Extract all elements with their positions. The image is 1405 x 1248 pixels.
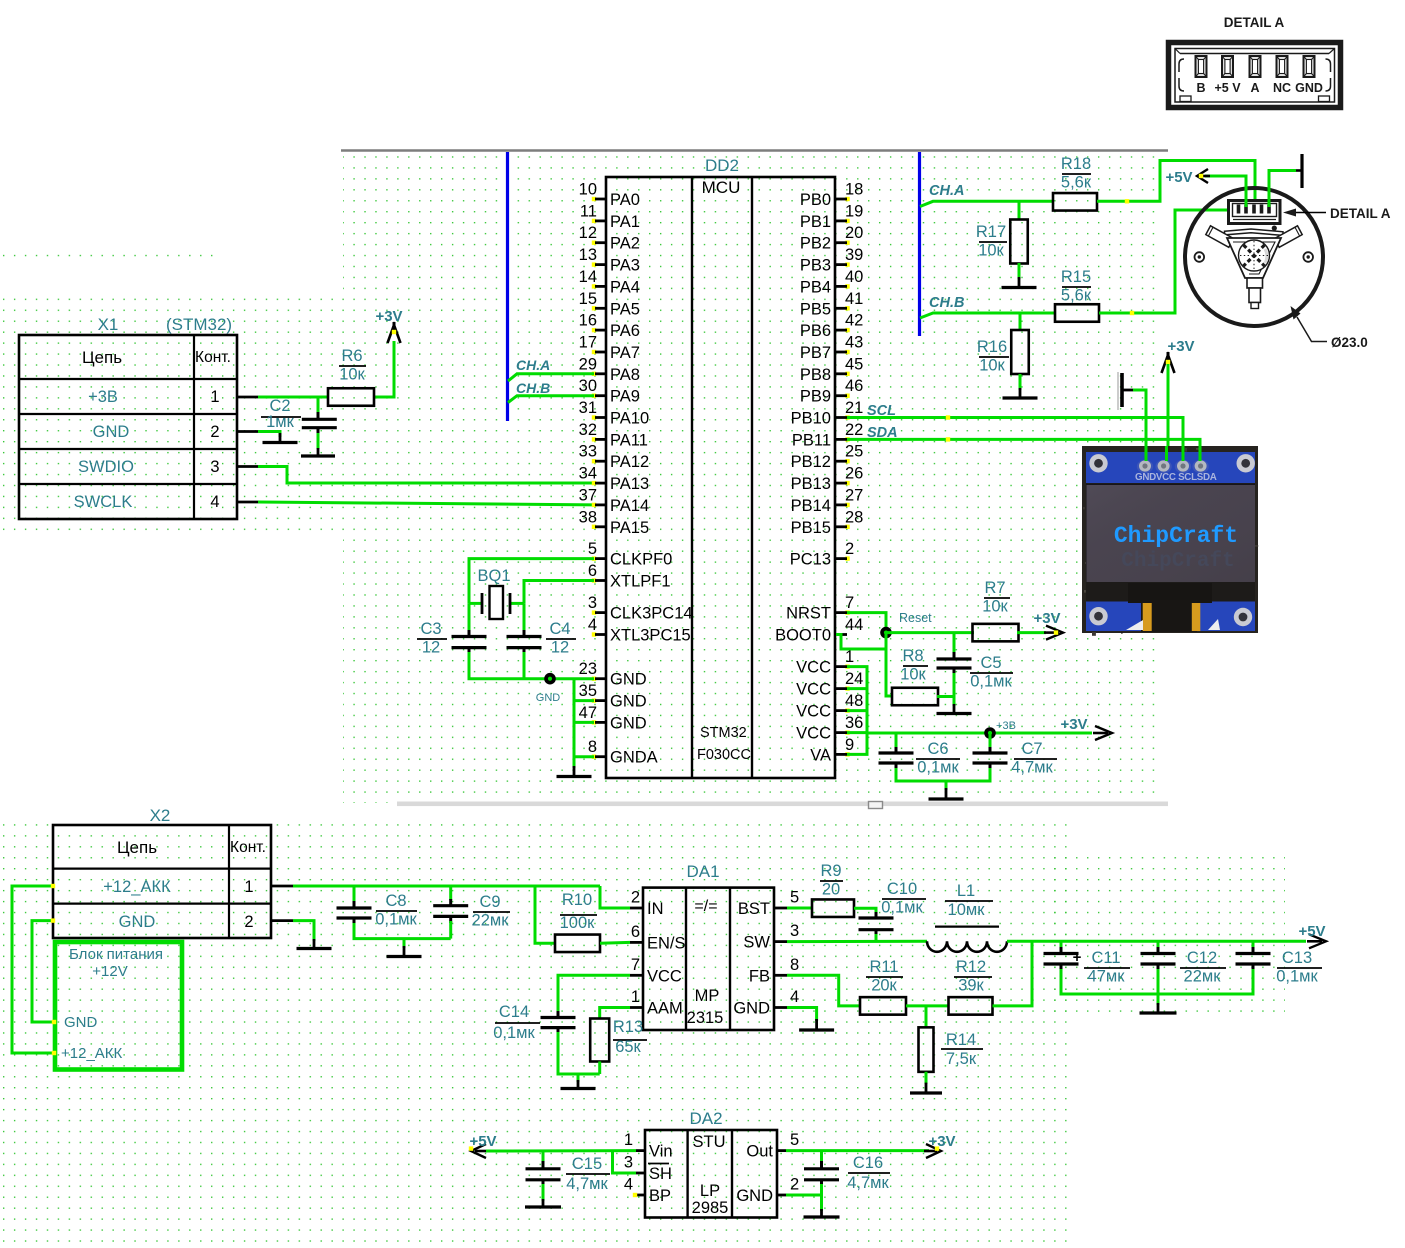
resistor R11 <box>860 997 906 1015</box>
svg-text:+5V: +5V <box>1165 169 1192 186</box>
X1 pin 3 stub <box>237 465 259 468</box>
svg-text:GNDA: GNDA <box>610 749 658 767</box>
wire SWCLK to PA14 <box>258 502 594 505</box>
label BQ1 <box>477 567 510 585</box>
svg-text:NC: NC <box>1273 81 1291 95</box>
svg-text:+3В: +3В <box>88 388 118 406</box>
svg-text:15: 15 <box>579 290 597 308</box>
svg-text:PA15: PA15 <box>610 519 649 537</box>
DD2 pin 34 PA13 <box>579 465 650 494</box>
regulator DA2 body <box>645 1130 777 1218</box>
DETAIL A connector drawing <box>1169 43 1341 108</box>
OLED display module photo <box>1082 446 1258 636</box>
wire rail to C8 <box>353 886 356 908</box>
label C4 12 <box>546 620 576 657</box>
wire R16 to ground <box>1019 374 1022 390</box>
label R15 5,6к <box>1061 268 1092 305</box>
svg-text:PA2: PA2 <box>610 235 640 253</box>
DETAIL A pin NC <box>1273 56 1291 95</box>
wire X1 pin1 to C2 <box>317 397 320 419</box>
DETAIL A pin A <box>1250 56 1261 95</box>
svg-text:12: 12 <box>551 639 569 657</box>
connector X2 table <box>53 825 271 938</box>
label C15 4,7мк <box>566 1155 610 1193</box>
wire C9 to bottom rail <box>449 916 452 938</box>
ground below C16 <box>804 1209 840 1217</box>
MCU title text <box>702 178 741 197</box>
svg-text:=/=: =/= <box>694 898 717 915</box>
svg-text:1мк: 1мк <box>266 413 295 431</box>
wire CH.A to PA8 <box>508 374 594 381</box>
DD2 pin 41 PB5 <box>800 290 864 319</box>
svg-text:PA5: PA5 <box>610 300 640 318</box>
svg-text:5: 5 <box>790 1131 799 1149</box>
DA2 pin 5 Out <box>746 1131 799 1161</box>
svg-text:37: 37 <box>579 486 597 504</box>
wire AAM to R13 <box>600 1008 630 1019</box>
svg-text:MP: MP <box>695 987 720 1005</box>
+3V arrow at DA2 <box>924 1144 941 1158</box>
capacitor C15 <box>526 1169 561 1180</box>
+5V arrow at encoder <box>1197 169 1210 183</box>
svg-text:DETAIL A: DETAIL A <box>1330 206 1391 221</box>
wire X1 pin2 to ground <box>258 432 280 438</box>
svg-text:5,6к: 5,6к <box>1061 174 1092 192</box>
svg-text:FB: FB <box>749 967 770 985</box>
svg-text:Out: Out <box>746 1143 773 1161</box>
svg-text:Конт.: Конт. <box>195 349 231 366</box>
label R7 10к <box>982 579 1010 616</box>
wire output caps bottom rail <box>1061 964 1253 1005</box>
ground below C15 <box>525 1199 561 1207</box>
X1 pin 4 <box>210 493 219 511</box>
X2 net +12_АКК <box>103 878 171 896</box>
wire NRST to Reset node <box>847 613 886 633</box>
svg-text:+3B: +3B <box>996 720 1016 732</box>
svg-text:4,7мк: 4,7мк <box>847 1174 889 1192</box>
svg-text:CH.B: CH.B <box>929 295 964 311</box>
label X1 <box>98 315 119 334</box>
svg-text:C16: C16 <box>853 1154 883 1172</box>
svg-text:C13: C13 <box>1282 949 1312 967</box>
svg-text:10к: 10к <box>978 242 1004 260</box>
svg-text:2: 2 <box>845 540 854 558</box>
resistor R8 <box>892 688 938 706</box>
svg-text:C7: C7 <box>1021 740 1042 758</box>
label R18 5,6к <box>1061 155 1092 192</box>
net label GND small <box>536 692 561 704</box>
junction +3B dot <box>984 727 996 739</box>
wire R7 to +3V <box>1017 631 1046 634</box>
svg-text:+3V: +3V <box>1167 338 1194 355</box>
svg-text:GND: GND <box>736 1187 773 1205</box>
X1 pin 2 <box>210 423 219 441</box>
DD2 pin 8 GNDA <box>588 738 658 767</box>
net label +3V at OLED <box>1167 338 1194 355</box>
resistor R9 <box>812 899 854 917</box>
DA1 pin 5 BST <box>738 889 799 919</box>
svg-text:0,1мк: 0,1мк <box>881 899 923 917</box>
svg-text:10к: 10к <box>339 366 365 384</box>
svg-text:C12: C12 <box>1187 949 1217 967</box>
DD2 pin 32 PA11 <box>579 421 648 450</box>
wire SCL from PB10 to OLED <box>847 415 1183 462</box>
svg-text:DD2: DD2 <box>705 156 739 175</box>
DD2 pin 1 VCC <box>796 648 854 677</box>
svg-text:0,1мк: 0,1мк <box>375 911 417 929</box>
wire Reset to C5 <box>953 633 956 659</box>
DD2 pin 47 GND <box>579 704 647 733</box>
resistor R17 <box>1010 220 1028 264</box>
encoder screw hole left <box>1195 252 1205 262</box>
svg-text:GND: GND <box>610 693 647 711</box>
svg-text:GND: GND <box>610 671 647 689</box>
resistor R16 <box>1011 330 1029 374</box>
wire C6 C7 to ground <box>896 763 990 790</box>
svg-text:A: A <box>1250 81 1259 95</box>
net label +3B small <box>996 720 1016 732</box>
label C5 0,1мк <box>970 654 1013 691</box>
svg-text:CLKPF0: CLKPF0 <box>610 551 672 569</box>
capacitor C14 <box>541 1018 576 1028</box>
X1 pin 3 <box>210 458 219 476</box>
svg-text:PB1: PB1 <box>800 213 831 231</box>
DA1 pin 1 AAM <box>630 988 683 1018</box>
+5V arrow at C13 <box>1307 934 1326 948</box>
svg-text:22мк: 22мк <box>1184 968 1222 986</box>
wire CH.A node to R17 <box>1018 201 1021 220</box>
ground at X2 pin2 <box>297 939 332 949</box>
DD2 pin 15 PA5 <box>579 290 640 319</box>
svg-text:PB0: PB0 <box>800 191 831 209</box>
svg-text:BST: BST <box>738 900 770 918</box>
wire ground to OLED GND <box>1133 390 1146 462</box>
DA1 text MP <box>695 987 720 1005</box>
svg-text:X1: X1 <box>98 315 119 334</box>
wire C5 to ground <box>953 668 956 706</box>
svg-text:SCL: SCL <box>867 403 896 419</box>
wire R17 to ground <box>1018 263 1021 279</box>
wire R11/R12 node to R14 <box>925 1006 928 1028</box>
DD2 pin 25 PB12 <box>791 443 864 472</box>
capacitor C2 <box>302 419 337 427</box>
svg-text:2: 2 <box>244 913 253 931</box>
svg-text:36: 36 <box>845 714 863 732</box>
DA1 pin 3 SW <box>743 922 799 952</box>
svg-text:PA0: PA0 <box>610 191 640 209</box>
ground below C2 <box>301 448 335 456</box>
svg-text:19: 19 <box>845 202 863 220</box>
svg-text:35: 35 <box>579 682 597 700</box>
svg-text:1: 1 <box>244 878 253 896</box>
X1 net SWDIO <box>78 458 134 476</box>
label DD2 <box>705 156 739 175</box>
svg-text:EN/S: EN/S <box>647 934 686 952</box>
resistor R18 <box>1053 193 1097 211</box>
X2 pin 2 stub <box>271 919 293 922</box>
crystal BQ1 <box>482 586 510 619</box>
resistor R10 <box>555 935 600 953</box>
svg-text:24: 24 <box>845 670 863 688</box>
DA2 pin 2 GND <box>736 1176 799 1206</box>
svg-text:STU: STU <box>693 1133 726 1151</box>
svg-text:PA10: PA10 <box>610 410 649 428</box>
wire BQ1 right to C4 <box>523 603 526 637</box>
blue divider line left <box>506 152 509 421</box>
svg-text:R17: R17 <box>976 223 1006 241</box>
svg-text:47: 47 <box>579 704 597 722</box>
wire +5V to C15 <box>542 1151 545 1168</box>
wire C10 to SW line <box>875 930 878 942</box>
wire +3V to OLED VCC <box>1167 364 1170 462</box>
label C10 0,1мк <box>881 880 926 917</box>
DA1 pin 8 FB <box>749 956 799 986</box>
label R8 10к <box>900 647 928 684</box>
svg-text:21: 21 <box>845 399 863 417</box>
resistor R12 <box>949 997 993 1015</box>
wire rail to ground C14 <box>577 1074 580 1082</box>
svg-text:DETAIL A: DETAIL A <box>1224 15 1285 30</box>
svg-text:PA13: PA13 <box>610 475 649 493</box>
encoder screw hole right <box>1303 252 1313 262</box>
wire GND pins chain <box>574 679 594 768</box>
DD2 pin 21 PB10 <box>791 399 864 428</box>
label R12 39к <box>954 958 992 995</box>
svg-text:12: 12 <box>422 639 440 657</box>
DETAIL A pin GND <box>1295 56 1323 95</box>
svg-text:34: 34 <box>579 465 597 483</box>
ground at DA1 GND <box>799 1019 834 1030</box>
svg-text:1: 1 <box>631 988 640 1006</box>
label C12 22мк <box>1180 949 1226 986</box>
wire BQ1 left to C3 <box>468 603 471 637</box>
svg-text:VCC: VCC <box>796 703 831 721</box>
svg-text:R16: R16 <box>977 338 1007 356</box>
svg-text:AAM: AAM <box>647 1000 683 1018</box>
svg-text:3: 3 <box>790 922 799 940</box>
capacitor C13 <box>1236 954 1271 965</box>
svg-text:48: 48 <box>845 692 863 710</box>
wire DA1 GND pin to ground <box>787 1008 817 1022</box>
svg-text:3: 3 <box>624 1154 633 1172</box>
X1 pin 4 stub <box>237 501 259 504</box>
capacitor C10 <box>859 918 894 930</box>
DD2 pin 37 PA14 <box>579 486 650 515</box>
svg-text:DA2: DA2 <box>689 1109 722 1128</box>
svg-text:GND: GND <box>733 1000 770 1018</box>
label R9 20 <box>820 862 843 899</box>
svg-text:R18: R18 <box>1061 155 1091 173</box>
svg-text:+3V: +3V <box>375 308 402 325</box>
sheet top border line <box>341 149 1168 152</box>
svg-text:CH.A: CH.A <box>929 183 964 199</box>
svg-text:3: 3 <box>210 458 219 476</box>
svg-text:ChipCraft: ChipCraft <box>1121 550 1234 573</box>
wire Out to +3V <box>786 1149 929 1152</box>
X2 pin 2 <box>244 913 253 931</box>
svg-text:22мк: 22мк <box>472 912 510 930</box>
svg-text:F030CC: F030CC <box>697 747 751 763</box>
DD2 pin 13 PA3 <box>579 246 640 275</box>
svg-text:C15: C15 <box>572 1155 602 1173</box>
+3V power symbol at R6 <box>388 322 401 343</box>
svg-text:PB5: PB5 <box>800 300 831 318</box>
svg-text:4,7мк: 4,7мк <box>1011 759 1053 777</box>
wire +5V to C13 <box>1252 941 1255 954</box>
horizontal scrollbar band <box>397 802 1168 809</box>
resistor R6 <box>328 388 374 406</box>
svg-text:+12_АКК: +12_АКК <box>61 1045 123 1062</box>
+3V arrow at R7 <box>1044 626 1063 640</box>
svg-text:PB6: PB6 <box>800 322 831 340</box>
net label +3V at DA2 <box>928 1133 955 1150</box>
svg-text:B: B <box>1196 81 1205 95</box>
label C7 4,7мк <box>1011 740 1057 777</box>
label R14 7,5к <box>941 1031 983 1068</box>
svg-text:ChipCraft: ChipCraft <box>1114 523 1238 549</box>
svg-text:100к: 100к <box>560 914 596 932</box>
svg-text:PB15: PB15 <box>791 519 831 537</box>
svg-text:PB3: PB3 <box>800 257 831 275</box>
svg-text:5: 5 <box>588 540 597 558</box>
net label +5V at DA2 <box>469 1133 496 1150</box>
svg-text:28: 28 <box>845 508 863 526</box>
wire +5V to C12 <box>1157 941 1160 954</box>
wire R10 to EN/S <box>600 941 630 945</box>
ground below C6/C7 <box>929 788 964 799</box>
wire rail to C6 <box>895 733 898 754</box>
ground below C14/R13 <box>561 1080 596 1089</box>
X2 net GND <box>119 913 156 931</box>
wire +3B dot to C7 <box>989 733 992 754</box>
wire GND pin to C16 <box>786 1194 822 1197</box>
DD2 pin 39 PB3 <box>800 246 864 275</box>
svg-text:29: 29 <box>579 355 597 373</box>
wire +3V rail from VCC <box>867 732 1092 735</box>
svg-text:LP: LP <box>700 1182 720 1200</box>
svg-text:PA4: PA4 <box>610 278 640 296</box>
wire encoder GND pin to ground <box>1269 171 1296 208</box>
wire CH.A to R18 <box>1019 200 1053 203</box>
wire +5V line from L1 <box>1007 940 1306 943</box>
X1 header Цепь <box>82 348 122 367</box>
X1 net GND <box>93 423 130 441</box>
svg-text:5: 5 <box>790 889 799 907</box>
label R16 10к <box>977 338 1009 375</box>
svg-text:XTL3PC15: XTL3PC15 <box>610 627 691 645</box>
ground below R14 <box>910 1083 942 1093</box>
svg-text:PB7: PB7 <box>800 344 831 362</box>
svg-text:40: 40 <box>845 268 863 286</box>
capacitor C4 <box>507 637 542 648</box>
svg-text:VA: VA <box>810 746 831 764</box>
+3V power symbol at OLED <box>1162 352 1175 373</box>
svg-text:PB2: PB2 <box>800 235 831 253</box>
svg-text:23: 23 <box>579 660 597 678</box>
power block text +12V <box>92 963 127 980</box>
svg-text:Цепь: Цепь <box>117 838 157 857</box>
resistor R7 <box>973 624 1019 642</box>
svg-text:42: 42 <box>845 312 863 330</box>
net label SDA <box>867 425 898 441</box>
svg-text:+5V: +5V <box>1298 923 1325 940</box>
svg-text:38: 38 <box>579 508 597 526</box>
svg-text:C11: C11 <box>1091 949 1120 967</box>
svg-text:Reset: Reset <box>899 611 932 625</box>
DD2 pin 18 PB0 <box>800 181 864 210</box>
resistor R15 <box>1055 304 1099 322</box>
ground at X1 pin2 <box>263 433 298 443</box>
svg-text:GND: GND <box>1295 81 1323 95</box>
DD2 pin 2 PC13 <box>790 540 854 569</box>
svg-text:20: 20 <box>822 881 840 899</box>
label R6 10к <box>339 347 366 384</box>
svg-text:6: 6 <box>631 923 640 941</box>
svg-text:SH: SH <box>649 1165 672 1183</box>
svg-text:4: 4 <box>210 493 219 511</box>
DD2 pin 5 CLKPF0 <box>588 540 673 569</box>
svg-text:2985: 2985 <box>692 1199 729 1217</box>
DD2 pin 40 PB4 <box>800 268 864 297</box>
DD2 pin 20 PB2 <box>800 224 864 253</box>
wire Reset node down to R8 <box>886 633 893 696</box>
svg-text:PA8: PA8 <box>610 366 640 384</box>
svg-text:PA3: PA3 <box>610 257 640 275</box>
label C14 0,1мк <box>493 1003 540 1042</box>
ground below MCU <box>557 766 592 777</box>
svg-text:C9: C9 <box>479 893 500 911</box>
capacitor C9 <box>433 906 468 917</box>
junction Reset dot <box>880 627 892 639</box>
DD2 pin 23 GND <box>579 660 647 689</box>
DD2 pin 17 PA7 <box>579 334 640 363</box>
svg-text:VCC: VCC <box>796 681 831 699</box>
label C9 22мк <box>472 893 510 930</box>
svg-text:PB14: PB14 <box>791 497 831 515</box>
svg-text:BQ1: BQ1 <box>477 567 510 585</box>
svg-text:41: 41 <box>845 290 863 308</box>
wire CLKPF0 to BQ1 <box>469 559 594 604</box>
svg-text:MCU: MCU <box>702 178 741 197</box>
svg-text:20к: 20к <box>871 977 897 995</box>
label C11 47мк <box>1084 949 1130 986</box>
svg-text:26: 26 <box>845 465 863 483</box>
svg-text:10: 10 <box>579 181 597 199</box>
MCU text STM32 <box>700 725 747 741</box>
wire +12_АКК to power block <box>12 884 56 1055</box>
DA2 pin 3 SH <box>624 1154 672 1184</box>
capacitor C12 <box>1141 954 1176 965</box>
wire SDA from PB11 to OLED <box>847 437 1200 462</box>
wire SW to L1 <box>787 940 927 943</box>
svg-text:7,5к: 7,5к <box>946 1050 977 1068</box>
DA1 symbol =/= <box>694 898 717 915</box>
svg-text:STM32: STM32 <box>700 725 747 741</box>
wire +3B from X1 pin1 through R6 to +3V <box>258 341 394 397</box>
svg-text:47мк: 47мк <box>1088 968 1126 986</box>
svg-text:C5: C5 <box>980 654 1001 672</box>
svg-text:44: 44 <box>845 616 863 634</box>
ground below C8/C9 <box>387 946 422 957</box>
svg-text:C3: C3 <box>420 620 441 638</box>
svg-text:2: 2 <box>210 423 219 441</box>
DD2 pin 36 VCC <box>796 714 863 743</box>
DD2 pin 22 PB11 <box>792 421 864 450</box>
svg-text:R9: R9 <box>820 862 841 880</box>
svg-text:C4: C4 <box>549 620 570 638</box>
DETAIL A pin +5 V <box>1214 56 1241 95</box>
wire CH.B to PA9 <box>508 396 594 403</box>
